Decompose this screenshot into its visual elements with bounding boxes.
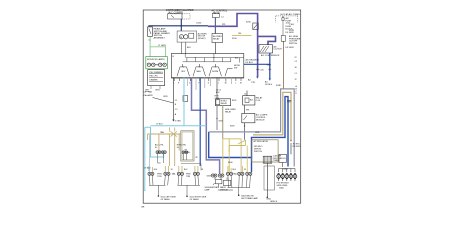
svg-text:18: 18	[244, 169, 246, 171]
svg-text:22: 22	[295, 57, 297, 59]
svg-text:OF DASH: OF DASH	[190, 198, 199, 201]
svg-text:A/T INDICATOR: A/T INDICATOR	[254, 140, 269, 143]
svg-text:YEL: YEL	[238, 33, 242, 35]
svg-text:ORN: ORN	[155, 90, 160, 92]
svg-text:ORN: ORN	[163, 96, 168, 98]
svg-text:C2: C2	[295, 61, 297, 63]
svg-text:RR WDO: RR WDO	[293, 146, 302, 148]
svg-text:8 ORN: 8 ORN	[175, 121, 181, 123]
svg-text:PNL LPS: PNL LPS	[149, 76, 158, 78]
svg-text:MODULE: MODULE	[256, 119, 265, 121]
svg-text:M: M	[180, 37, 182, 39]
svg-text:DK BLU: DK BLU	[246, 62, 254, 64]
svg-text:TAN: TAN	[160, 131, 164, 134]
svg-text:S409: S409	[207, 176, 211, 178]
svg-text:C100: C100	[289, 24, 295, 26]
svg-text:GRILLE: GRILLE	[270, 201, 278, 203]
svg-text:RELAY: RELAY	[221, 102, 228, 105]
svg-text:S340: S340	[228, 162, 232, 164]
svg-text:LT BLU: LT BLU	[156, 123, 163, 125]
svg-text:A/C: A/C	[250, 98, 254, 101]
svg-text:PNL DIMMING: PNL DIMMING	[149, 72, 163, 74]
svg-text:TRN: TRN	[186, 176, 191, 178]
svg-text:A/C CONTROL: A/C CONTROL	[212, 9, 228, 12]
svg-text:SW: SW	[234, 67, 237, 69]
svg-text:TAN: TAN	[148, 90, 152, 93]
svg-text:S356: S356	[219, 120, 223, 122]
svg-text:HEAD: HEAD	[213, 12, 220, 15]
svg-text:18: 18	[295, 67, 297, 69]
svg-text:RELAY: RELAY	[225, 110, 232, 113]
svg-text:LAMP: LAMP	[205, 188, 211, 191]
svg-text:C1: C1	[295, 73, 297, 75]
svg-text:A/C: A/C	[235, 56, 239, 59]
svg-text:C305: C305	[287, 101, 292, 103]
svg-text:(W/ A/C): (W/ A/C)	[198, 37, 206, 40]
svg-text:LEFT REAR LAMP: LEFT REAR LAMP	[241, 197, 259, 200]
svg-text:DISPLAY: DISPLAY	[220, 188, 229, 191]
svg-text:ILL: ILL	[155, 147, 158, 149]
svg-text:ILL: ILL	[188, 152, 191, 154]
svg-text:L: L	[235, 83, 236, 85]
svg-text:G400: G400	[279, 187, 284, 189]
svg-text:TRN: TRN	[157, 176, 162, 178]
svg-text:MAX: MAX	[197, 70, 202, 73]
svg-text:CTRL: CTRL	[215, 98, 221, 100]
svg-text:C125: C125	[260, 69, 264, 71]
svg-text:DK BLU: DK BLU	[265, 84, 273, 86]
svg-text:SWITCH: SWITCH	[254, 151, 262, 153]
svg-text:INTERIOR LAMPS: INTERIOR LAMPS	[147, 58, 165, 61]
svg-text:S359: S359	[230, 126, 234, 128]
svg-text:18: 18	[171, 169, 173, 171]
svg-text:18: 18	[201, 169, 203, 171]
svg-text:ORN: ORN	[255, 132, 260, 134]
svg-text:C250: C250	[196, 22, 202, 24]
svg-text:DK GRN: DK GRN	[286, 47, 294, 49]
svg-text:ILL: ILL	[177, 147, 180, 149]
svg-text:BLK: BLK	[187, 47, 191, 49]
svg-text:CLUTCH: CLUTCH	[274, 49, 283, 51]
svg-text:12: 12	[295, 79, 297, 81]
svg-text:J: J	[218, 83, 219, 85]
svg-text:OF DASH: OF DASH	[161, 198, 170, 201]
svg-text:RELAY: RELAY	[213, 37, 220, 40]
svg-text:NORM: NORM	[212, 71, 218, 73]
svg-text:SWITCH: SWITCH	[289, 43, 298, 45]
svg-text:GR: GR	[141, 206, 145, 208]
svg-text:LT BLU: LT BLU	[144, 168, 151, 170]
svg-text:S332: S332	[232, 100, 236, 102]
svg-text:ASSEMBLY: ASSEMBLY	[154, 36, 166, 39]
svg-text:DIMMER: DIMMER	[149, 80, 158, 82]
svg-text:LT GRN: LT GRN	[158, 45, 166, 47]
svg-text:DK GRN: DK GRN	[286, 32, 294, 34]
svg-text:S234: S234	[232, 38, 236, 40]
